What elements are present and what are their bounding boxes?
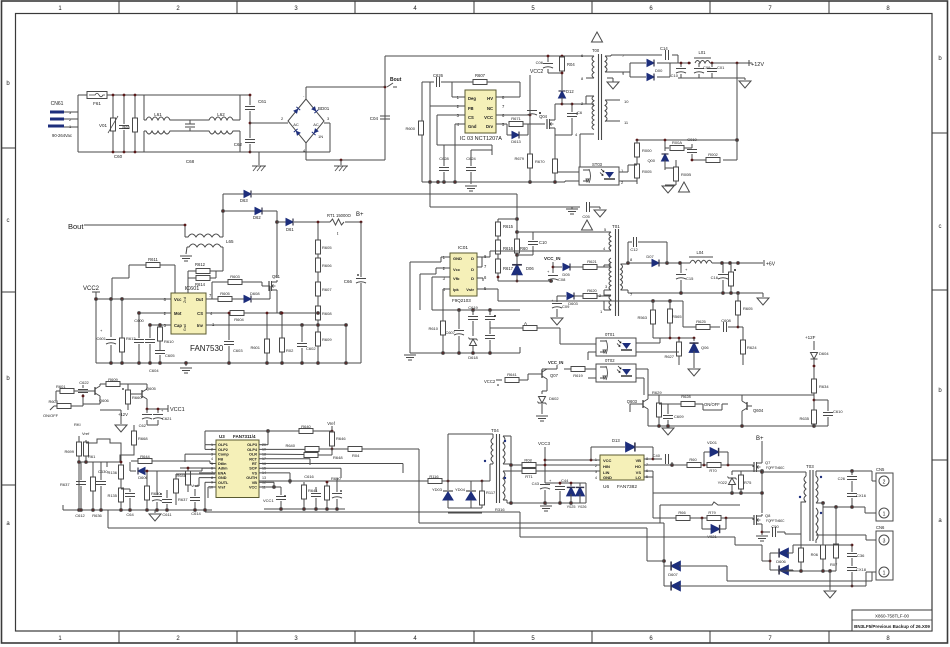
svg-text:2: 2 [595,464,597,468]
svg-text:CS: CS [468,115,474,120]
resistor R629 [648,390,662,426]
capacitor C627 [527,111,541,116]
diode D07 [646,254,659,267]
svg-text:Dtlin: Dtlin [218,462,227,466]
svg-text:R610: R610 [428,326,438,331]
svg-text:C619: C619 [468,305,478,310]
node VCC_IN [544,256,561,273]
resistor R68 [553,159,558,173]
svg-text:R75: R75 [744,480,752,485]
svg-text:C607: C607 [445,330,455,335]
svg-text:Q06: Q06 [701,345,709,350]
capacitor C08 [547,269,566,282]
svg-text:C600: C600 [134,318,144,323]
svg-text:C603: C603 [233,348,243,353]
svg-text:R680: R680 [151,491,161,496]
resistor R648L [176,467,215,492]
resistor R04 [560,55,576,90]
capacitor C600 [134,313,145,363]
svg-text:b: b [6,376,10,382]
svg-text:1: 1 [58,636,62,642]
svg-text:CN5: CN5 [876,467,885,472]
svg-text:D603: D603 [568,301,578,306]
wire bus B3 [205,512,741,545]
svg-text:L01: L01 [699,50,707,55]
title block [852,610,932,631]
svg-text:6: 6 [211,467,213,471]
svg-text:C36: C36 [857,553,865,558]
wire secondary rectifier [611,55,691,77]
ground PFC [180,368,192,373]
capacitor C605 [155,351,175,364]
svg-text:OUTH: OUTH [246,476,257,480]
svg-text:L62: L62 [217,112,225,117]
svg-text:OUTL: OUTL [218,481,229,485]
svg-text:Y022: Y022 [718,480,728,485]
resistor R668 [132,425,149,452]
svg-text:R609: R609 [322,337,332,342]
zener Q00 [647,139,668,168]
resistor R635 [799,410,816,426]
transistor Q604 [703,395,764,426]
capacitor C60 [114,95,129,159]
transformer T00 [575,32,629,182]
diode D06 [512,262,534,282]
ground secondary center [607,78,619,89]
svg-text:RCT: RCT [249,457,257,461]
svg-text:9: 9 [211,481,213,485]
svg-text:L65: L65 [226,239,234,244]
svg-text:Q606: Q606 [99,398,110,403]
capacitor C16 [711,263,728,293]
earth ground AC [250,152,266,171]
svg-text:VCC1: VCC1 [263,498,274,503]
resistor R610b [158,327,175,350]
svg-text:L61: L61 [154,112,162,117]
node ON/OFF input [43,406,59,418]
svg-text:R606: R606 [322,263,332,268]
svg-text:VCC_IN: VCC_IN [548,360,563,365]
wire D62 run [222,210,279,278]
capacitor C622 [78,380,90,397]
diode D606 upper [770,545,843,564]
resistor R00A [665,140,692,151]
resistor R000 [635,139,653,165]
svg-text:5: 5 [604,227,607,232]
resistor R135 [107,488,123,510]
IC U3 FAN7311 [209,434,266,498]
svg-text:C01: C01 [717,65,725,70]
resistor R117 [480,490,506,512]
svg-text:ON/OFF: ON/OFF [704,402,720,407]
diode VD01 [704,440,728,465]
svg-text:C602: C602 [306,346,316,351]
svg-text:+12F: +12F [805,335,816,340]
resistor R116 [428,474,483,484]
resistor R611 [112,257,175,299]
svg-text:D06: D06 [526,266,534,271]
svg-text:C43: C43 [532,481,540,486]
resistor R602 [280,312,295,363]
svg-text:Bout: Bout [390,77,402,83]
wire primary return rail [660,502,806,534]
svg-text:R60: R60 [689,457,697,462]
wire pin11 VCC row [259,487,281,503]
svg-text:+: + [549,478,552,483]
svg-text:R000: R000 [642,148,652,153]
X-cap C63 [185,120,207,164]
svg-text:R644: R644 [140,454,150,459]
svg-text:10: 10 [209,485,213,489]
node +6V [763,260,776,268]
svg-text:R601: R601 [56,384,66,389]
svg-text:Vref: Vref [82,431,90,436]
svg-text:R641: R641 [308,488,318,493]
svg-text:2: 2 [211,448,213,452]
svg-text:R607: R607 [475,73,486,78]
svg-text:Mot: Mot [174,311,182,316]
wire Out pin [206,286,270,299]
diode D05 [553,264,583,278]
resistor R005 [635,164,653,184]
svg-text:R136: R136 [107,470,117,475]
svg-text:R601: R601 [250,345,260,350]
svg-text:R00A: R00A [672,140,682,145]
svg-text:OLP1: OLP1 [218,443,228,447]
resistor R628 [668,394,720,407]
ground output [824,591,836,598]
svg-text:R565: R565 [672,314,682,319]
svg-text:R617: R617 [503,266,514,271]
svg-text:ON/OFF: ON/OFF [43,413,59,418]
svg-text:R70: R70 [709,468,717,473]
svg-text:R613: R613 [126,336,136,341]
svg-text:D61: D61 [286,227,294,232]
svg-text:+: + [100,328,103,333]
svg-text:CN61: CN61 [51,101,64,107]
svg-text:4: 4 [603,246,606,251]
svg-text:R679: R679 [514,156,524,161]
svg-text:R316: R316 [495,507,505,512]
svg-text:+6V: +6V [766,262,776,268]
resistor R608 [316,296,333,320]
capacitor C609b [659,404,684,426]
capacitor C61 [245,95,267,123]
diode D603 [557,293,583,307]
svg-text:3: 3 [211,452,213,456]
svg-text:7: 7 [484,264,487,269]
svg-text:C40: C40 [653,453,661,458]
svg-text:R604: R604 [234,317,244,322]
svg-text:Bout: Bout [68,222,84,231]
svg-text:C16: C16 [711,275,719,280]
node RKI / Vref left [74,422,90,443]
svg-text:5: 5 [211,462,213,466]
svg-text:C62: C62 [139,423,147,428]
wire lower secondary [816,508,876,543]
svg-text:R60: R60 [520,246,528,251]
wire pin20 R640 [259,424,332,445]
svg-text:R563: R563 [637,315,647,320]
connector CN61 [48,101,72,138]
wire secondary return [628,292,763,297]
svg-text:D: D [471,267,474,272]
svg-text:R600: R600 [405,126,415,131]
svg-text:T01: T01 [612,224,620,229]
wire pin12 row [259,482,281,488]
resistor R617 [496,259,514,281]
svg-text:OLP3: OLP3 [247,443,257,447]
resistor R002 [691,152,720,163]
svg-text:R628: R628 [681,394,691,399]
diode D613 [507,124,528,144]
wire secondary rail [627,262,763,265]
svg-text:HIN: HIN [603,464,610,469]
resistor R637b [174,474,216,505]
capacitor C14 [660,46,669,60]
capacitor C606 [145,325,155,363]
resistor R601e [56,384,90,401]
capacitor C6w [332,478,342,509]
svg-text:GND: GND [453,256,462,261]
diode D00 lower [647,74,654,81]
ground regulator [100,410,127,432]
svg-text:D05: D05 [562,272,570,277]
transistor Q8 [753,513,785,535]
svg-text:T03: T03 [806,464,814,469]
wire converter gnd rail [410,347,520,354]
svg-text:3: 3 [883,539,886,545]
svg-text:C09: C09 [562,304,570,309]
svg-text:B+: B+ [356,212,364,218]
svg-text:VCC3: VCC3 [538,441,551,446]
svg-text:3: 3 [605,284,608,289]
resistor R612 [188,262,223,274]
svg-text:R06: R06 [811,552,819,557]
svg-text:7: 7 [768,6,772,12]
svg-text:R650: R650 [331,476,341,481]
svg-text:R612: R612 [195,262,206,267]
zener Q06 [653,337,709,368]
IC03 pin wires [430,82,530,182]
wire B+ feed into converter [498,218,533,262]
svg-text:F61: F61 [93,101,101,106]
wire Bout to L65 [88,225,185,237]
svg-text:11: 11 [624,120,629,125]
capacitor C50 [762,524,785,537]
diode D62 [253,208,262,221]
resistor R75 [739,471,753,493]
svg-text:D00: D00 [655,68,663,73]
svg-text:R640: R640 [285,443,295,448]
svg-text:R65: R65 [122,125,130,130]
resistor R644 [131,454,210,464]
wire boost output [277,221,361,223]
wire AC live/neutral [64,95,250,152]
resistor R636 [91,470,96,510]
svg-text:1: 1 [58,6,62,12]
resistor R680 [145,470,162,510]
diode D61 [286,219,294,233]
node +12Vb [118,410,128,417]
resistor R619 [564,367,586,379]
svg-text:Y026: Y026 [578,505,587,509]
svg-text:7: 7 [768,636,772,642]
resistor R604 [230,311,245,323]
svg-text:2: 2 [883,480,886,486]
capacitor C62e [139,408,152,428]
resistor R615 [496,219,514,241]
wire PFC gnd rail [96,362,361,366]
wire primary bottom rail [422,181,565,184]
svg-text:c: c [7,218,10,224]
svg-text:VCC_IN: VCC_IN [544,256,561,261]
wire secondary mid rail [816,502,876,513]
transformer T01 [490,224,633,316]
svg-text:AC: AC [313,122,319,127]
ground bridge [334,159,348,171]
capacitor C616 [302,474,319,509]
resistor R637 group [60,470,86,510]
svg-text:C09: C09 [703,65,711,70]
resistor R634 [742,379,829,411]
svg-text:D602: D602 [549,396,559,401]
svg-text:D: D [471,256,474,261]
svg-text:90-264Vac: 90-264Vac [52,133,72,138]
node VCC2 left [83,286,100,363]
resistor R60f [687,457,707,468]
svg-text:R629: R629 [652,390,662,395]
capacitor C630 [96,469,108,510]
resistor R61e [84,442,97,462]
svg-text:Q07: Q07 [550,373,559,378]
svg-text:+: + [547,269,550,274]
svg-text:R608: R608 [48,399,58,404]
svg-text:U6: U6 [603,484,609,490]
wire feedback drop [637,63,738,160]
svg-text:Adim: Adim [218,467,228,471]
svg-text:R637: R637 [178,497,188,502]
resistor R05b [799,507,804,571]
svg-text:b: b [6,81,10,87]
IC601 FAN7530 [164,286,224,353]
svg-text:SCP: SCP [249,467,257,471]
capacitor C43 [532,478,552,503]
connector CN6 [876,525,893,580]
inductor L04 [689,250,713,263]
svg-text:C15: C15 [686,276,694,281]
svg-text:FB: FB [468,106,474,111]
zener D618 [468,338,478,361]
resistor R616 [496,240,514,260]
varistor V01 [99,95,118,152]
svg-text:D608: D608 [250,291,260,296]
svg-text:D62: D62 [253,215,261,220]
svg-text:C62: C62 [234,142,243,147]
svg-text:VB: VB [252,481,258,485]
wire pin17 row [259,459,310,465]
svg-text:R135: R135 [107,493,117,498]
wire pin18 row R648 [259,449,343,460]
svg-text:D613: D613 [511,139,521,144]
svg-text:R610: R610 [164,339,174,344]
svg-text:10: 10 [624,99,629,104]
resistor R641 [484,372,537,386]
svg-text:OLP4: OLP4 [247,448,258,452]
resistor R60c [515,236,529,253]
opto ST03 [556,162,637,185]
svg-text:-: - [303,93,305,98]
wire to bridge [250,123,330,152]
node Bout switch [384,77,402,88]
svg-text:R609: R609 [108,377,118,382]
svg-text:OLR: OLR [249,453,257,457]
capacitor C09 [694,63,711,78]
svg-text:1: 1 [211,443,213,447]
svg-text:BD01: BD01 [318,106,330,111]
thermistor RT1 [327,213,352,236]
transistor Q603 [627,395,742,426]
svg-text:R646: R646 [336,436,346,441]
capacitor C12 [628,237,667,263]
svg-text:4: 4 [575,132,578,137]
diode D608 [244,291,260,303]
ground T04 [540,506,552,511]
wire aux supply rail [498,280,552,283]
svg-text:IC01: IC01 [458,245,468,251]
svg-text:R00B: R00B [681,172,691,177]
resistor R621 [583,259,611,270]
svg-text:R624: R624 [747,345,757,350]
svg-text:R07: R07 [830,562,838,567]
svg-text:C08: C08 [558,277,566,282]
svg-text:C010: C010 [687,137,697,142]
svg-text:R61: R61 [88,454,96,459]
choke L61 [144,95,188,152]
wire q604 base feed [742,394,814,396]
svg-text:0T02: 0T02 [605,358,615,363]
resistor R625 [683,301,720,330]
svg-text:FB: FB [218,457,223,461]
svg-text:Out: Out [196,297,204,302]
svg-text:C604: C604 [149,368,159,373]
svg-text:D13: D13 [612,438,620,443]
svg-text:RT1 15000O: RT1 15000O [327,213,352,218]
capacitor C04 [370,116,390,121]
svg-text:AC: AC [293,122,299,127]
resistor R06b [811,507,826,571]
svg-text:C64: C64 [126,512,134,517]
svg-text:C601: C601 [96,336,106,341]
diode D607 lower [664,581,852,590]
wire pin15 row [259,468,341,478]
wire bus B1 [419,523,665,586]
resistor R627 [664,337,681,365]
svg-text:Q605: Q605 [146,386,157,391]
resistor R08 [522,458,600,468]
wire VS row [644,470,763,495]
wire Vfb lower rail [432,309,520,312]
resistor R07 [830,507,839,571]
svg-text:C610: C610 [833,409,843,414]
diode D607 upper [664,561,872,581]
svg-text:3: 3 [595,470,597,474]
resistor R607 [473,73,487,85]
svg-text:C26: C26 [838,476,846,481]
svg-text:FAN7530: FAN7530 [190,344,224,353]
svg-text:5: 5 [531,636,535,642]
inductor L65 [185,194,234,271]
